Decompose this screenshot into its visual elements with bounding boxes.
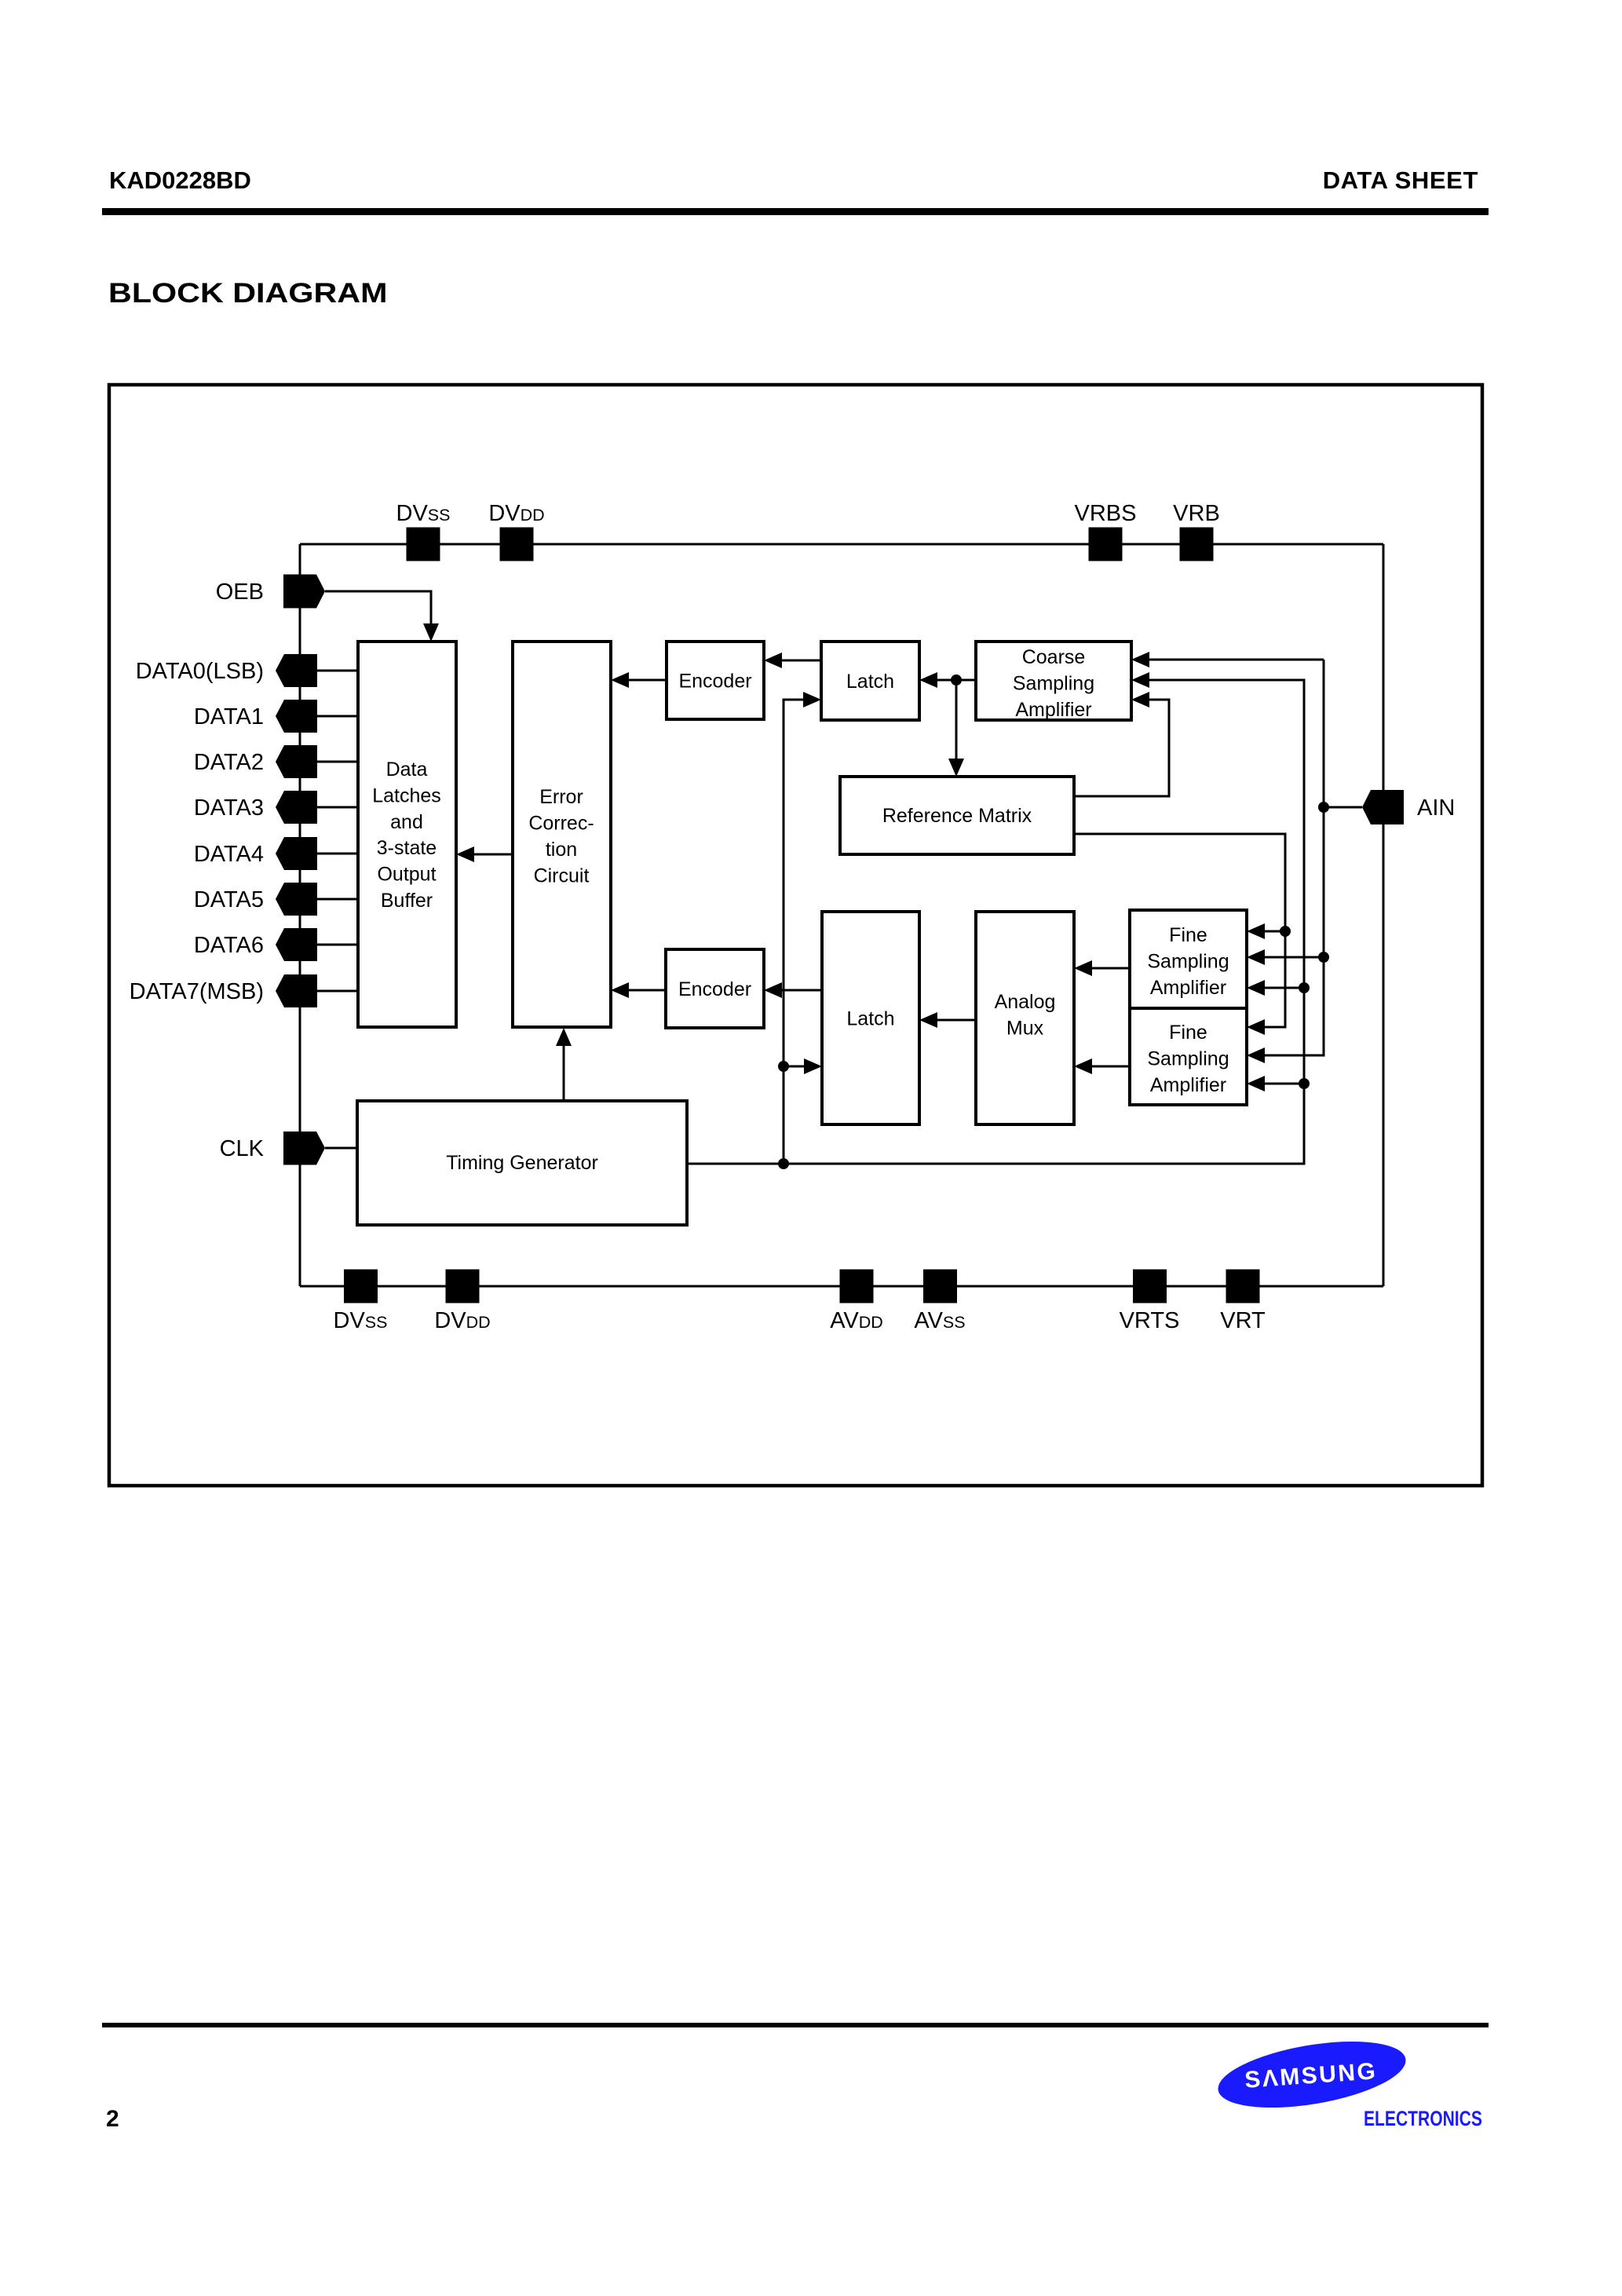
svg-text:DATA1: DATA1 — [194, 704, 264, 729]
svg-text:Reference Matrix: Reference Matrix — [882, 805, 1032, 827]
svg-text:VRTS: VRTS — [1120, 1308, 1180, 1333]
junction AIN branch FSA upper — [1318, 952, 1329, 963]
svg-text:CLK: CLK — [220, 1136, 265, 1161]
wire Latch upper to Encoder upper — [764, 653, 821, 668]
block Encoder (upper) — [667, 642, 764, 719]
pad DATA3 — [276, 791, 317, 824]
svg-text:Output: Output — [377, 864, 436, 886]
wire AIN analog input net — [1131, 652, 1362, 1063]
junction clock branch at Latch lower — [778, 1061, 789, 1072]
wire Encoder lower to Error Correction — [611, 982, 666, 998]
wire Coarse Sampling Amplifier to Latch upper — [919, 672, 976, 688]
svg-text:AVDD: AVDD — [830, 1308, 883, 1333]
svg-text:3-state: 3-state — [377, 837, 437, 859]
wire Latch lower to Encoder lower — [764, 982, 822, 998]
svg-text:Encoder: Encoder — [678, 978, 751, 1000]
svg-text:DATA4: DATA4 — [194, 842, 264, 867]
svg-text:Latches: Latches — [372, 785, 441, 807]
junction clock branch FSA upper — [1299, 982, 1310, 993]
svg-text:Error: Error — [539, 786, 583, 808]
block Analog Mux — [976, 912, 1074, 1124]
block Latch (upper) — [821, 642, 919, 720]
svg-text:Latch: Latch — [846, 671, 894, 693]
svg-text:Fine: Fine — [1169, 924, 1207, 946]
pad DVSS top — [407, 528, 440, 561]
outer diagram border — [109, 385, 1482, 1486]
wire Fine Sampling Amplifier lower to Analog Mux — [1074, 1058, 1130, 1074]
block Error Correction Circuit — [513, 642, 611, 1027]
svg-text:DATA0(LSB): DATA0(LSB) — [136, 659, 264, 684]
pad VRB — [1180, 528, 1214, 561]
wire Timing Generator output to sampling amplifiers clock — [687, 672, 1304, 1164]
wire OEB to Data Latches enable — [325, 591, 439, 642]
block Encoder (lower) — [666, 949, 764, 1028]
pad DATA0 (output, points left) — [276, 654, 317, 687]
svg-text:Timing Generator: Timing Generator — [446, 1152, 598, 1174]
wire CLK stub to Timing Generator — [325, 1147, 357, 1150]
wire Reference Matrix upper output to Coarse Sampling Amplifier — [1074, 692, 1169, 796]
junction clock at timing output line — [778, 1158, 789, 1169]
block Timing Generator — [357, 1101, 687, 1225]
pad DVDD top — [500, 528, 534, 561]
svg-text:Amplifier: Amplifier — [1150, 977, 1226, 999]
wire Reference Matrix lower output to Fine Sampling Amplifiers — [1074, 834, 1285, 1035]
wire DATA2 stub — [317, 761, 358, 763]
pad OEB (input, points right) — [283, 575, 325, 609]
svg-text:DATA2: DATA2 — [194, 750, 264, 775]
wire Timing Generator to Error Correction — [556, 1028, 572, 1101]
svg-text:DATA6: DATA6 — [194, 933, 264, 958]
svg-text:VRT: VRT — [1220, 1308, 1266, 1333]
pad DATA2 — [276, 745, 317, 778]
wire DATA1 stub — [317, 715, 358, 718]
svg-text:Sampling: Sampling — [1147, 951, 1229, 973]
block Latch (lower) — [822, 912, 919, 1124]
wire DATA3 stub — [317, 806, 358, 809]
block Reference Matrix — [840, 777, 1074, 854]
svg-text:Latch: Latch — [846, 1008, 894, 1030]
wire DATA7 stub — [317, 990, 358, 993]
pad DATA5 — [276, 883, 317, 916]
svg-text:2: 2 — [106, 2106, 119, 2132]
svg-text:VRBS: VRBS — [1075, 501, 1137, 526]
wire left pin bus (OEB/DATA/CLK column) — [299, 544, 301, 1286]
svg-text:Data: Data — [386, 759, 428, 781]
block Fine Sampling Amplifier (lower) — [1130, 1008, 1247, 1105]
pad DATA4 — [276, 837, 317, 870]
wire DATA6 stub — [317, 944, 358, 946]
wire clock distribution from Timing Generator to both Latches — [784, 692, 821, 1164]
svg-text:AIN: AIN — [1417, 795, 1455, 821]
wire DATA0 stub — [317, 670, 358, 672]
wire AIN branch to FSA upper — [1247, 949, 1324, 965]
junction clock branch FSA lower — [1299, 1078, 1310, 1089]
pad DVSS bottom — [344, 1270, 378, 1303]
wire Analog Mux to Latch lower — [919, 1012, 976, 1028]
svg-text:KAD0228BD: KAD0228BD — [109, 166, 251, 194]
svg-text:Encoder: Encoder — [678, 671, 751, 693]
svg-text:BLOCK DIAGRAM: BLOCK DIAGRAM — [108, 278, 387, 309]
svg-text:ELECTRONICS: ELECTRONICS — [1364, 2108, 1482, 2131]
block Coarse Sampling Amplifier — [976, 642, 1131, 721]
svg-text:VRB: VRB — [1173, 501, 1220, 526]
wire clock branch to Latch lower — [784, 1058, 822, 1074]
wire right bus vertical — [1383, 544, 1385, 1286]
svg-text:tion: tion — [546, 839, 577, 861]
wire top supply bus DVSS/DVDD/VRBS/VRB — [300, 543, 1383, 546]
svg-text:Fine: Fine — [1169, 1022, 1207, 1044]
pad AIN (input, points left) — [1362, 790, 1404, 824]
junction reference branch FSA upper — [1280, 926, 1291, 937]
wire reference branch to FSA upper — [1247, 923, 1285, 939]
svg-text:DVSS: DVSS — [334, 1308, 388, 1333]
pad VRT — [1226, 1270, 1260, 1303]
svg-text:OEB: OEB — [216, 579, 264, 605]
pad VRBS — [1089, 528, 1123, 561]
svg-text:Circuit: Circuit — [534, 865, 590, 887]
wire Error Correction to Data Latches — [456, 846, 513, 862]
pad DATA7 — [276, 974, 317, 1007]
wire clock branch to Fine Sampling Amplifier upper — [1247, 980, 1304, 996]
svg-text:DATA SHEET: DATA SHEET — [1323, 166, 1478, 194]
wire bottom supply bus DVSS/DVDD/AVDD/AVSS/VRTS/VRT — [300, 1285, 1383, 1288]
svg-text:Analog: Analog — [995, 991, 1056, 1013]
header rule — [102, 208, 1489, 215]
pad AVDD — [840, 1270, 874, 1303]
pad CLK (input, points right) — [283, 1132, 325, 1165]
wire clock branch to Fine Sampling Amplifier lower — [1247, 1076, 1304, 1091]
block Data Latches and 3-state Output Buffer — [358, 642, 456, 1027]
svg-text:Coarse: Coarse — [1022, 646, 1086, 668]
pad VRTS — [1133, 1270, 1167, 1303]
svg-text:Sampling: Sampling — [1147, 1048, 1229, 1070]
svg-text:DATA3: DATA3 — [194, 795, 264, 821]
svg-text:Buffer: Buffer — [381, 890, 433, 912]
svg-text:DATA7(MSB): DATA7(MSB) — [130, 979, 264, 1004]
svg-text:Amplifier: Amplifier — [1150, 1074, 1226, 1096]
svg-text:Correc-: Correc- — [528, 813, 594, 835]
svg-text:AVSS: AVSS — [914, 1308, 965, 1333]
junction AIN at vertical net — [1318, 802, 1329, 813]
pad DATA6 — [276, 928, 317, 961]
svg-text:DVSS: DVSS — [396, 501, 451, 526]
block Fine Sampling Amplifier (upper) — [1130, 910, 1247, 1008]
wire Encoder upper to Error Correction — [611, 672, 667, 688]
svg-text:Sampling: Sampling — [1013, 673, 1094, 695]
pad AVSS — [923, 1270, 957, 1303]
svg-text:DVDD: DVDD — [434, 1308, 490, 1333]
wire DATA5 stub — [317, 898, 358, 901]
junction at Coarse Sampling Amplifier output branch — [951, 675, 962, 686]
svg-text:Amplifier: Amplifier — [1015, 699, 1091, 721]
footer rule — [102, 2023, 1489, 2027]
pad DATA1 — [276, 700, 317, 733]
svg-text:DVDD: DVDD — [488, 501, 544, 526]
wire branch down to Reference Matrix — [948, 680, 964, 777]
Samsung logo ellipse — [1213, 2030, 1410, 2119]
svg-text:DATA5: DATA5 — [194, 887, 264, 912]
wire Fine Sampling Amplifier upper to Analog Mux — [1074, 960, 1130, 976]
wire DATA4 stub — [317, 853, 358, 855]
svg-text:Mux: Mux — [1006, 1018, 1044, 1040]
pad DVDD bottom — [446, 1270, 480, 1303]
svg-text:and: and — [390, 811, 423, 833]
